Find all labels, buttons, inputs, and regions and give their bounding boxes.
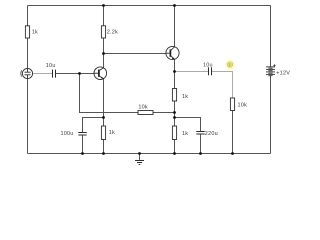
wire Q2 collector to top rail: [174, 6, 176, 47]
wire R 10k right to bottom rail: [232, 111, 234, 154]
resistor 2.2k: [101, 26, 118, 38]
svg-text:1k: 1k: [182, 94, 188, 100]
wire C1 to Q1 base: [56, 73, 95, 75]
wire right rail lower (battery to bottom rail): [270, 76, 272, 154]
svg-text:P: P: [229, 62, 232, 67]
junction Q2 emitter node: [173, 70, 176, 73]
wire C3 100u branch: [83, 118, 104, 133]
junction rail at ground: [138, 152, 141, 155]
transistor Q1: [94, 67, 107, 80]
junction rail at 1k mid: [102, 152, 105, 155]
svg-text:2.2k: 2.2k: [107, 30, 118, 36]
wire R 1k to microphone: [27, 38, 29, 69]
wire R 1k upper to R 1k lower: [174, 101, 176, 126]
wire C4 220u to bottom rail: [200, 134, 202, 153]
capacitor 10u input: [46, 63, 56, 78]
junction rail at 220u: [199, 152, 202, 155]
junction top rail at Q2 collector: [173, 4, 176, 7]
wire left column top (rail to R 1k): [27, 6, 29, 26]
svg-text:1k: 1k: [32, 30, 38, 36]
wire R 2.2k to Q1 collector: [103, 38, 105, 68]
wire C3 100u to bottom rail: [82, 135, 84, 154]
resistor 10k feedback: [138, 104, 153, 114]
capacitor 10u output: [203, 62, 213, 75]
ground: [135, 161, 144, 165]
junction rail at 1k lower: [173, 152, 176, 155]
svg-text:100u: 100u: [61, 131, 74, 137]
wire R 1k mid to bottom rail: [103, 140, 105, 154]
resistor 1k upper (Q2 emitter): [172, 89, 188, 102]
capacitor 220u: [196, 131, 218, 137]
resistor 10k output load: [230, 98, 247, 111]
resistor 1k lower: [172, 126, 188, 140]
wire top rail to R 2.2k: [103, 6, 105, 26]
wire emitter node to C2 (gray output net): [175, 71, 209, 73]
svg-text:10k: 10k: [238, 103, 248, 109]
wire R 1k lower to bottom rail: [174, 140, 176, 154]
junction rail at 10k output: [231, 152, 234, 155]
junction node A (C1 to Q1 base and bus): [78, 72, 81, 75]
svg-text:220u: 220u: [205, 131, 218, 137]
wire bottom ground rail: [28, 153, 271, 155]
node P marker: [225, 60, 235, 70]
wire right rail upper (top rail to battery): [270, 6, 272, 67]
svg-text:1k: 1k: [109, 130, 115, 136]
capacitor 100u: [61, 131, 87, 137]
wire microphone output to C1 (gray net): [33, 73, 53, 75]
wire top supply rail: [28, 5, 271, 7]
resistor 1k left: [25, 26, 38, 38]
wire Q2 emitter to node: [174, 59, 176, 71]
wire node A down to feedback bus: [80, 74, 175, 113]
junction top rail at 2.2k: [102, 4, 105, 7]
wire emitter node to R 1k upper: [174, 72, 176, 89]
wire Q1 emitter down to R 1k mid: [103, 79, 105, 126]
resistor 1k mid (Q1 emitter): [101, 126, 115, 140]
svg-text:1k: 1k: [182, 131, 188, 137]
wire microphone to bottom rail: [27, 79, 29, 154]
junction rail at 100u: [81, 152, 84, 155]
svg-text:10u: 10u: [46, 63, 56, 69]
junction Q1 collector / Q2 base node: [102, 52, 105, 55]
wire Q1 collector node to Q2 base: [104, 53, 167, 55]
microphone MIC1: [21, 68, 33, 78]
battery +12V: [266, 64, 290, 76]
junction feedback bus end: [173, 111, 176, 114]
svg-text:+12V: +12V: [276, 70, 290, 76]
wire 220u branch: [175, 118, 201, 132]
svg-text:10k: 10k: [138, 104, 148, 110]
junction 220u branch: [173, 116, 176, 119]
svg-text:10u: 10u: [203, 62, 213, 68]
wire C2 to node P corner and down to R 10k (gray output net): [212, 72, 233, 99]
wire ground stub: [139, 154, 141, 161]
junction 100u branch at Q1 emitter: [102, 116, 105, 119]
transistor Q2: [166, 46, 179, 59]
